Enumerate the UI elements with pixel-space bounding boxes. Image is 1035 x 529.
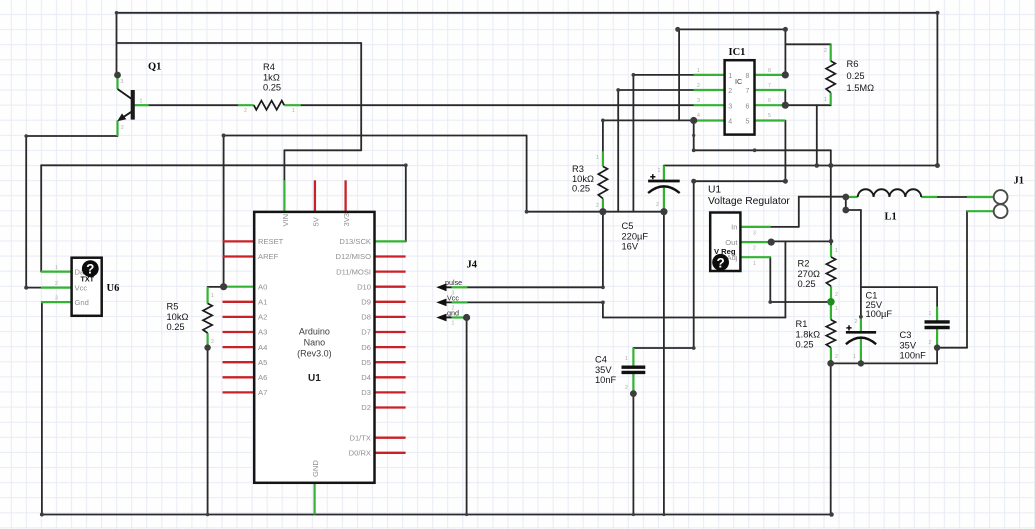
capacitor C1 polarized — [846, 317, 876, 364]
svg-text:3: 3 — [55, 296, 58, 302]
svg-text:Arduino: Arduino — [299, 327, 330, 337]
svg-text:5: 5 — [768, 113, 771, 119]
svg-text:100nF: 100nF — [900, 351, 927, 361]
svg-text:(Rev3.0): (Rev3.0) — [297, 349, 332, 359]
node C5 rail — [662, 513, 665, 516]
wire Vcc riser to Out junction — [784, 241, 786, 317]
svg-text:2: 2 — [596, 203, 599, 209]
svg-text:?: ? — [716, 255, 724, 270]
svg-text:C3: C3 — [900, 330, 912, 340]
svg-text:2: 2 — [855, 319, 858, 325]
capacitor C5 polarized — [648, 166, 680, 212]
svg-text:1: 1 — [824, 97, 827, 103]
wire R2 top tiny stub — [830, 241, 832, 245]
svg-text:IC: IC — [735, 77, 742, 86]
wire Q1 emitter left — [26, 135, 117, 137]
node pin4 bend — [692, 134, 695, 137]
svg-text:2: 2 — [211, 339, 214, 345]
svg-text:GND: GND — [311, 460, 320, 477]
svg-text:3V3: 3V3 — [342, 213, 351, 227]
svg-text:1: 1 — [929, 311, 932, 317]
wire C1 column down — [860, 210, 862, 317]
svg-text:3: 3 — [121, 79, 124, 85]
svg-text:3: 3 — [728, 103, 732, 110]
svg-text:1kΩ: 1kΩ — [263, 72, 280, 82]
connector J4 — [436, 278, 467, 327]
node pin4 tee — [692, 148, 696, 152]
node H4 left — [675, 27, 680, 32]
svg-text:Gnd: Gnd — [75, 298, 89, 307]
wire left vertical from top rail to Q1 collector — [116, 13, 118, 75]
svg-text:RESET: RESET — [258, 237, 284, 246]
svg-text:VIN: VIN — [281, 214, 290, 227]
svg-text:10kΩ: 10kΩ — [167, 312, 189, 322]
wire Vcc rail right — [603, 317, 786, 319]
node R3 top corner — [601, 119, 605, 123]
svg-text:0.25: 0.25 — [847, 71, 865, 81]
svg-text:D7: D7 — [361, 328, 371, 337]
svg-text:2: 2 — [656, 202, 659, 208]
svg-text:4: 4 — [728, 119, 732, 126]
svg-text:7: 7 — [746, 88, 750, 95]
svg-text:In: In — [731, 223, 737, 232]
wire U1 Out to R2 top — [771, 240, 831, 242]
wire pin5 column down — [693, 181, 695, 348]
svg-text:2: 2 — [835, 292, 838, 298]
svg-text:35V: 35V — [900, 340, 917, 350]
capacitor C3 — [925, 307, 950, 348]
svg-text:8: 8 — [746, 73, 750, 80]
svg-text:U6: U6 — [107, 283, 120, 294]
node U1 Out junction — [768, 239, 775, 246]
wire down to gnd mid rail — [526, 136, 528, 212]
svg-text:1.5MΩ: 1.5MΩ — [847, 83, 875, 93]
wire IC1 pin4 down — [693, 121, 695, 151]
node C5top/V+ riser — [828, 163, 833, 168]
svg-text:2: 2 — [697, 83, 700, 89]
svg-text:R3: R3 — [572, 164, 584, 174]
svg-text:35V: 35V — [595, 365, 612, 375]
wire to R6 top — [785, 43, 830, 45]
wire down to VIN pin — [283, 150, 285, 180]
wire U1 In right — [771, 226, 799, 228]
svg-text:R5: R5 — [167, 302, 179, 312]
svg-text:1: 1 — [658, 168, 661, 174]
wire A0 junction up — [223, 136, 225, 287]
node A0 junction — [220, 283, 227, 290]
svg-text:D2: D2 — [361, 403, 371, 412]
svg-text:D8: D8 — [361, 313, 371, 322]
transistor Q1 — [117, 75, 149, 136]
wire C3 bottom drop — [936, 348, 938, 364]
wire pulse up to R3 bottom — [602, 212, 604, 288]
svg-text:R2: R2 — [798, 259, 810, 269]
wire C5 bottom down — [663, 212, 665, 515]
svg-text:0.25: 0.25 — [796, 340, 814, 350]
wire R3 top to IC1 pin4 — [603, 119, 694, 121]
wire L1 left twin dots link — [845, 197, 847, 210]
wire R3 top riser — [602, 120, 604, 151]
wire gnd mid rail — [527, 211, 664, 213]
svg-text:5: 5 — [746, 119, 750, 126]
wire bottom ground rail — [42, 514, 832, 516]
wire J4 gnd down — [466, 318, 468, 515]
wire IC1 pin5 down — [784, 121, 786, 182]
resistor R5 — [203, 287, 214, 348]
node R1 bottom — [827, 360, 834, 367]
node R5 rail junction — [206, 513, 210, 517]
svg-text:2: 2 — [121, 125, 124, 131]
node C1 bottom — [858, 360, 864, 366]
wire pin5 link left — [694, 180, 786, 182]
svg-text:D5: D5 — [361, 358, 371, 367]
svg-text:D6: D6 — [361, 343, 371, 352]
svg-text:1: 1 — [452, 321, 455, 327]
node pin6 junction — [782, 102, 789, 109]
svg-text:R4: R4 — [263, 62, 275, 72]
wire second top rail — [117, 42, 362, 44]
IC U1 (555) IC1 — [694, 60, 786, 134]
wire R1/C1/C3 bottom row — [831, 362, 937, 364]
svg-text:U1: U1 — [708, 185, 721, 196]
svg-text:D9: D9 — [361, 298, 371, 307]
svg-text:0.25: 0.25 — [263, 83, 281, 93]
svg-text:1.8kΩ: 1.8kΩ — [796, 329, 821, 339]
svg-text:D1/TX: D1/TX — [349, 433, 371, 442]
node H4 right — [783, 27, 788, 32]
node L1 lower junction — [842, 207, 849, 214]
capacitor C4 — [622, 348, 646, 394]
svg-text:10nF: 10nF — [595, 375, 617, 385]
node C4 bottom — [630, 390, 637, 397]
wire down to IC1 pin8 — [784, 29, 786, 75]
wire R6 bottom drop to V+ row — [816, 105, 818, 165]
node R5 bottom — [204, 344, 210, 350]
voltage regulator U1 — [710, 213, 771, 272]
wire C3 top link — [861, 286, 937, 288]
wire Adj to R1/R2 junction — [770, 301, 831, 303]
svg-text:16V: 16V — [622, 242, 639, 252]
node gnd rail corner — [525, 210, 529, 214]
wire R4 to IC1 pin3 — [301, 104, 694, 106]
wire over to VIN column — [284, 149, 361, 151]
wire pin2 down to gnd rail — [617, 90, 619, 212]
svg-text:D4: D4 — [361, 373, 371, 382]
node Adj corner — [768, 300, 772, 304]
node C5top right end — [935, 163, 940, 168]
svg-text:7: 7 — [768, 83, 771, 89]
wire C3 bottom right — [937, 347, 967, 349]
svg-text:1: 1 — [211, 293, 214, 299]
svg-text:1: 1 — [835, 306, 838, 312]
node rail left end — [40, 513, 44, 517]
svg-text:6: 6 — [746, 103, 750, 110]
node pin1 corner — [632, 73, 636, 77]
svg-text:A2: A2 — [258, 313, 267, 322]
wire C4 bottom down — [632, 394, 634, 515]
wire U6 Gnd down — [41, 302, 43, 514]
svg-text:1: 1 — [753, 261, 756, 267]
svg-text:3: 3 — [452, 291, 455, 297]
wire IC1 top link — [678, 28, 786, 30]
svg-text:1: 1 — [625, 356, 628, 362]
wire down to D13/SCK — [405, 165, 407, 241]
node R6 drop junction — [815, 163, 820, 168]
wire IC1 pin2 left — [618, 89, 693, 91]
svg-text:2: 2 — [824, 48, 827, 54]
node C5 bottom — [660, 208, 667, 215]
wire to C1 column — [846, 209, 861, 211]
wire IC1 pin6 to R6 bottom — [785, 104, 830, 106]
svg-text:5V: 5V — [312, 216, 321, 226]
node bend 754 — [753, 148, 757, 152]
wire U6 Data up — [40, 165, 42, 271]
node Vcc corner — [601, 301, 605, 305]
wire IC1 pin4 tee riser — [678, 29, 680, 120]
wire R1 bottom down to rail — [830, 363, 832, 514]
svg-text:A6: A6 — [258, 373, 267, 382]
svg-text:2: 2 — [55, 281, 58, 287]
wire V+ riser to R2 top — [830, 150, 832, 241]
wire IC1 pin7 to pin6 — [784, 90, 786, 105]
wire Q1 base to R4 — [149, 104, 238, 106]
svg-text:pulse: pulse — [445, 278, 462, 287]
svg-text:1: 1 — [55, 265, 58, 271]
svg-text:Nano: Nano — [304, 338, 326, 348]
wire L1 right to J1 — [937, 196, 967, 198]
svg-text:AREF: AREF — [258, 252, 279, 261]
node rail right end — [829, 512, 834, 517]
node L1 left junction — [842, 194, 849, 201]
wire C5 top horizontal — [664, 165, 938, 167]
svg-text:1: 1 — [853, 354, 856, 360]
svg-text:D3: D3 — [361, 388, 371, 397]
node bend at 223,135 — [222, 134, 226, 138]
node C4 rail — [632, 513, 635, 516]
svg-text:1: 1 — [835, 248, 838, 254]
wire Vcc jog down — [602, 302, 604, 317]
svg-text:J4: J4 — [467, 259, 478, 270]
svg-text:R6: R6 — [847, 59, 859, 69]
Arduino Nano U1 — [223, 180, 406, 514]
svg-text:A1: A1 — [258, 298, 267, 307]
node top-left corner — [115, 11, 119, 15]
inductor L1 — [846, 189, 937, 197]
svg-text:A4: A4 — [258, 343, 267, 352]
wire top V+ rail — [117, 12, 938, 14]
wire down from second rail — [360, 43, 362, 150]
svg-text:1: 1 — [292, 108, 295, 114]
wire pin4 net right — [694, 149, 831, 151]
node J4 gnd junction — [463, 314, 470, 321]
node C4 top corner — [692, 346, 696, 350]
svg-text:C5: C5 — [622, 221, 634, 231]
svg-text:1: 1 — [728, 73, 732, 80]
svg-text:100µF: 100µF — [866, 309, 893, 319]
node R2 top junction — [829, 239, 834, 244]
svg-text:2: 2 — [244, 108, 247, 114]
node pulse corner — [601, 285, 605, 289]
wire IC1 pin1 left — [633, 74, 693, 76]
svg-text:0.25: 0.25 — [572, 184, 590, 194]
svg-text:D10: D10 — [357, 282, 371, 291]
node pin2 corner — [616, 88, 620, 92]
wire down left edge — [25, 136, 27, 288]
node R3 bottom — [599, 208, 606, 215]
svg-text:3: 3 — [697, 98, 700, 104]
svg-text:2: 2 — [753, 246, 756, 252]
node D13 corner — [404, 163, 408, 167]
wire In to L1 — [799, 196, 846, 198]
svg-text:2: 2 — [452, 306, 455, 312]
svg-text:0.25: 0.25 — [798, 279, 816, 289]
svg-text:6: 6 — [768, 98, 771, 104]
svg-text:L1: L1 — [885, 212, 897, 223]
svg-text:A5: A5 — [258, 358, 267, 367]
node pin5 link right — [783, 179, 788, 184]
resistor R3 — [596, 151, 608, 212]
svg-text:D11/MOSI: D11/MOSI — [336, 267, 371, 276]
node Q1 collector junction — [114, 72, 121, 79]
node J4 gnd rail — [465, 513, 468, 516]
svg-text:A7: A7 — [258, 388, 267, 397]
wire U6 Data to D13 column — [41, 164, 406, 166]
svg-text:10kΩ: 10kΩ — [572, 174, 594, 184]
wire J4 pulse — [467, 286, 603, 288]
node pin8 junction — [782, 71, 789, 78]
wire R5 bottom down to rail — [207, 348, 209, 515]
node C1 top tee — [859, 315, 863, 319]
svg-text:2: 2 — [929, 340, 932, 346]
wire C4 top link — [633, 347, 693, 349]
svg-text:1: 1 — [697, 68, 700, 74]
wire into U6 Vcc — [26, 287, 41, 289]
wire up to J1 pin2 — [966, 211, 968, 348]
resistor R6 — [824, 44, 835, 105]
svg-text:4: 4 — [697, 113, 700, 119]
node emitter wire corner — [24, 134, 28, 138]
svg-text:1: 1 — [140, 99, 143, 105]
svg-text:R1: R1 — [796, 319, 808, 329]
node top rail right end — [935, 11, 939, 15]
svg-text:270Ω: 270Ω — [798, 269, 821, 279]
svg-text:D12/MISO: D12/MISO — [336, 252, 372, 261]
svg-text:0.25: 0.25 — [167, 322, 185, 332]
svg-text:Voltage Regulator: Voltage Regulator — [708, 196, 790, 207]
svg-text:D0/RX: D0/RX — [349, 449, 371, 458]
node C3 bottom — [934, 345, 940, 351]
svg-text:220µF: 220µF — [622, 231, 649, 241]
svg-text:8: 8 — [768, 68, 771, 74]
connector J1 — [967, 190, 1007, 218]
svg-text:Vcc: Vcc — [75, 283, 88, 292]
svg-text:IC1: IC1 — [729, 47, 746, 58]
svg-text:2: 2 — [835, 354, 838, 360]
svg-text:A3: A3 — [258, 328, 267, 337]
wire right vertical from top rail down — [936, 13, 938, 166]
svg-text:2: 2 — [625, 385, 628, 391]
svg-text:U1: U1 — [308, 373, 321, 384]
mystery part U6 — [41, 258, 102, 316]
svg-text:Q1: Q1 — [148, 62, 161, 73]
resistor R4 — [238, 101, 301, 114]
wire U1 Adj down — [769, 257, 771, 302]
node pin5 link left — [691, 179, 696, 184]
svg-text:C4: C4 — [595, 355, 607, 365]
svg-text:?: ? — [86, 262, 94, 277]
svg-text:D13/SCK: D13/SCK — [339, 237, 371, 246]
resistor R1 — [826, 302, 838, 364]
wire C3 top drop — [936, 287, 938, 306]
wire pin1 down to gnd rail — [632, 75, 634, 212]
node R2/R1 green junction — [827, 298, 835, 306]
svg-text:Out: Out — [725, 238, 738, 247]
wire J4 Vcc — [467, 301, 603, 303]
svg-text:2: 2 — [728, 88, 732, 95]
wire R5 top to A0 junction — [208, 286, 224, 288]
node pin4 junction — [690, 117, 697, 124]
svg-text:3: 3 — [753, 231, 756, 237]
svg-text:1: 1 — [596, 155, 599, 161]
svg-text:J1: J1 — [1014, 176, 1025, 187]
wire A0 net across — [224, 135, 527, 137]
node U6 Vcc corner — [24, 286, 28, 290]
svg-text:A0: A0 — [258, 282, 267, 291]
wire In riser — [798, 197, 800, 227]
resistor R2 — [826, 245, 838, 302]
